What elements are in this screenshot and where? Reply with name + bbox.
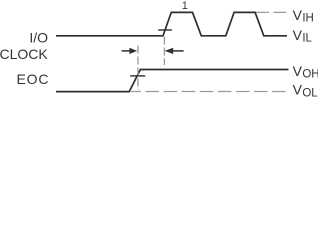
wire I/O CLOCK waveform — [56, 12, 287, 35]
node VIH level dashed line — [256, 11, 286, 13]
wire right measurement arrow — [165, 48, 174, 54]
svg-text:CLOCK: CLOCK — [0, 46, 48, 62]
svg-text:I/O: I/O — [29, 30, 48, 46]
wire left measurement arrow — [122, 50, 131, 52]
svg-text:1: 1 — [182, 0, 188, 12]
node VOL level dashed line — [131, 91, 286, 93]
wire EOC waveform — [56, 70, 289, 92]
node vertical dashed line at EOC edge — [137, 46, 139, 91]
svg-text:EOC: EOC — [17, 71, 50, 87]
tick measurement mark on EOC rising edge — [130, 75, 145, 77]
node vertical dashed line at I/O CLOCK edge — [163, 37, 165, 66]
tick measurement mark on I/O CLOCK rising edge — [158, 29, 172, 31]
